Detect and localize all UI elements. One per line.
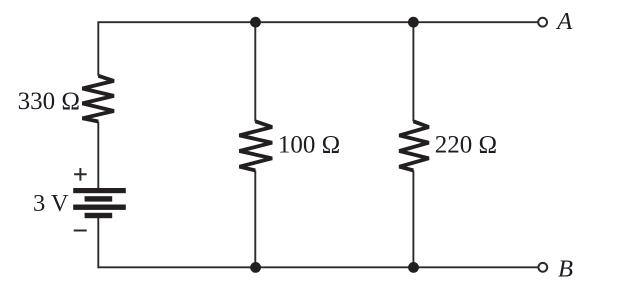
svg-text:B: B (558, 255, 573, 282)
svg-text:A: A (555, 8, 573, 35)
svg-text:100 Ω: 100 Ω (278, 131, 340, 158)
svg-text:220 Ω: 220 Ω (435, 131, 497, 158)
svg-text:3 V: 3 V (33, 190, 69, 217)
svg-text:330 Ω: 330 Ω (18, 88, 80, 115)
